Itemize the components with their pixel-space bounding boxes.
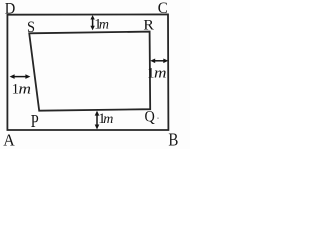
svg-text:m: m (154, 66, 167, 82)
outer rectangle ABCD (7, 14, 168, 130)
svg-text:S: S (27, 19, 35, 36)
left dimension arrow (10, 74, 31, 79)
bottom dimension arrow (95, 111, 100, 130)
svg-text:m: m (19, 81, 32, 97)
right dimension arrow (150, 59, 168, 64)
svg-text:B: B (168, 129, 178, 149)
svg-text:P: P (31, 111, 39, 131)
svg-text:m: m (99, 17, 109, 32)
svg-text:C: C (158, 0, 168, 17)
svg-text:D: D (5, 0, 16, 17)
svg-text:R: R (143, 17, 154, 33)
svg-text:Q: Q (145, 109, 156, 126)
faint scan speck near Q (157, 118, 159, 119)
svg-text:m: m (103, 112, 113, 127)
svg-text:A: A (3, 130, 15, 149)
inner rectangle SRQP (29, 32, 150, 111)
top dimension arrow (90, 15, 94, 30)
